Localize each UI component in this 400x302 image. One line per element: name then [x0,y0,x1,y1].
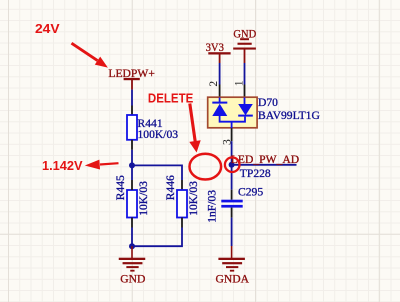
capacitor C295 [206,185,264,222]
pin R446.1 [181,180,183,190]
svg-text:LED_PW_AD: LED_PW_AD [231,153,299,166]
ground GND (bottom left) [119,246,146,285]
wire capacitor to GNDA [231,218,233,246]
pin C295.1 [231,190,233,200]
junction node LED_PW_AD [229,162,235,168]
wire node to R446 top [132,165,182,180]
svg-text:D70: D70 [258,96,278,109]
diode B (anode up to pin1) [244,98,246,105]
diode D70 BAV99LT1G [207,80,321,145]
svg-text:C295: C295 [238,185,263,198]
power port 3V3 [206,41,231,63]
junction node (R441/R445/R446) [129,162,135,168]
pin 2 [219,85,221,98]
wire GND to pin1 [244,63,246,85]
diode A (cathode up to pin2) [219,98,221,104]
wire node to R445 [131,165,133,180]
wire pin3 to capacitor [231,141,233,190]
pin 1 [244,85,246,98]
pin 3 [231,128,233,141]
wire 3V3 to pin2 [219,63,221,85]
svg-text:TP228: TP228 [240,167,271,180]
svg-text:2: 2 [207,81,220,87]
wire LEDPW+ to R441 [131,90,133,106]
svg-text:1.142V: 1.142V [42,158,83,173]
wire R446 bottom to ground node [132,228,182,247]
svg-text:R446: R446 [164,175,177,200]
body box [208,97,257,128]
resistor R445 [114,175,150,218]
svg-text:DELETE: DELETE [148,90,194,105]
svg-text:10K/03: 10K/03 [187,181,200,216]
svg-text:BAV99LT1G: BAV99LT1G [258,109,320,122]
annotation circle on node [225,157,240,172]
pin R441.1 [131,106,133,116]
junction node (bottom, R445/R446/GND) [129,243,135,249]
internal connection to pin 3 [220,116,245,122]
svg-text:100K/03: 100K/03 [138,128,179,141]
wire R441 to node [131,150,133,166]
svg-text:10K/03: 10K/03 [137,181,150,216]
annotation arrow to node [85,160,119,170]
pin C295.2 [231,208,233,218]
resistor R446 [164,175,200,218]
wire R445 bottom to ground node [131,228,133,247]
pin R441.2 [131,140,133,150]
svg-text:GNDA: GNDA [216,272,250,285]
annotation arrow to LEDPW+ [72,43,108,67]
pin R445.2 [131,218,133,228]
annotation ellipse (deleted part) [190,154,222,180]
pin R445.1 [131,180,133,190]
svg-text:24V: 24V [35,21,60,36]
resistor R441 [127,115,178,141]
svg-text:3V3: 3V3 [206,41,224,54]
wire net stub right [232,164,297,166]
ground GNDA [216,246,250,285]
svg-text:R445: R445 [114,175,127,200]
annotation arrow to ellipse [189,104,200,153]
svg-text:1nF/03: 1nF/03 [206,190,219,223]
power port LEDPW+ [108,67,154,89]
pin R446.2 [181,218,183,228]
power port GND (top) [233,27,256,63]
svg-text:GND: GND [120,272,145,285]
svg-text:1: 1 [232,80,245,86]
